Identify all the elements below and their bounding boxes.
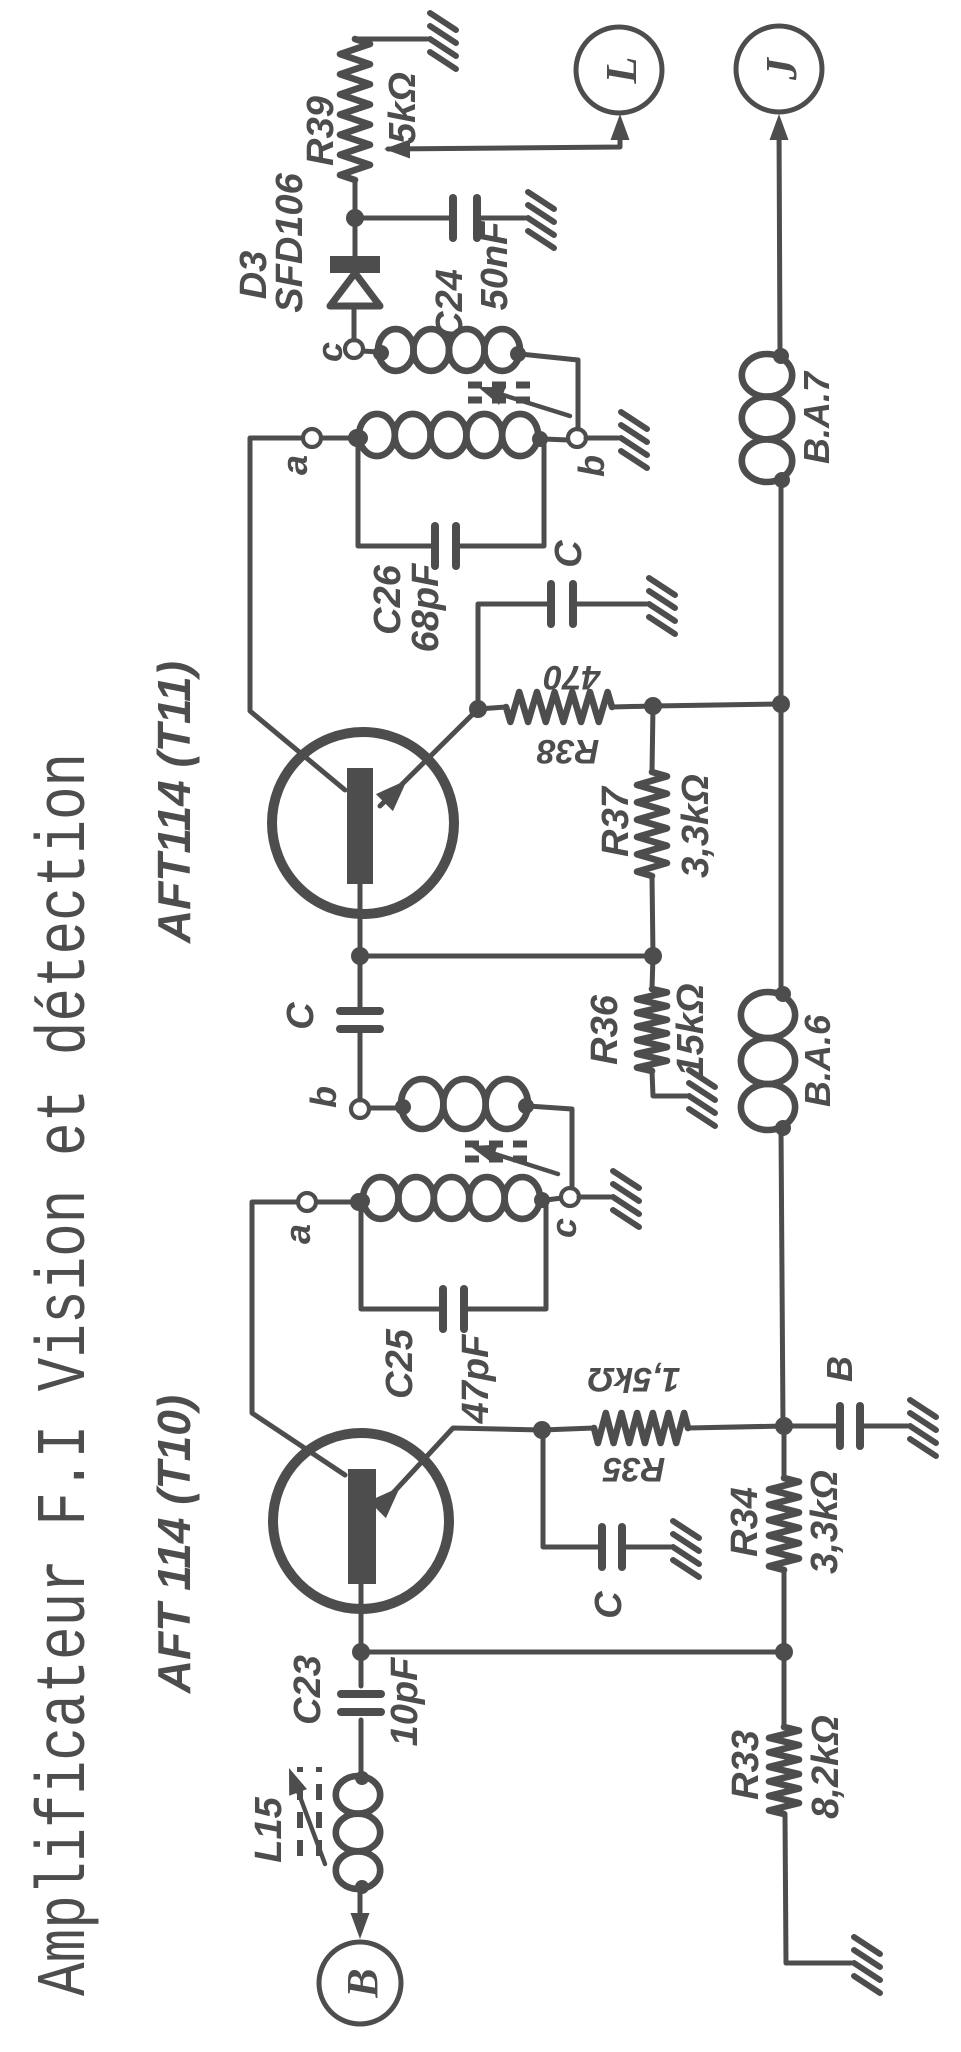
transistor T11 base bar: [347, 768, 373, 884]
label C26: [367, 564, 409, 635]
wire: [359, 1720, 364, 1776]
wire: [359, 1652, 364, 1686]
svg-text:10pF: 10pF: [384, 1656, 426, 1746]
wire T11 emitter lead: [380, 709, 478, 806]
svg-text:3,3kΩ: 3,3kΩ: [675, 774, 717, 878]
label R33: [725, 1730, 767, 1800]
label 3,3k: [804, 1470, 846, 1574]
node: [469, 700, 487, 718]
wire T10 base line: [361, 1650, 784, 1655]
ground: [910, 1400, 936, 1456]
arrow into B: [351, 1913, 370, 1939]
transistor T10 base bar: [348, 1469, 376, 1584]
svg-text:C24: C24: [429, 269, 471, 339]
wire wiper: [388, 122, 620, 149]
label B: [819, 1356, 860, 1382]
wire: [546, 1198, 562, 1200]
label 68pF: [405, 562, 447, 652]
svg-text:c: c: [543, 1218, 584, 1238]
terminal B: [319, 1942, 401, 2024]
svg-text:C: C: [548, 540, 590, 568]
wire T10 collector lead: [252, 1202, 345, 1475]
wire T11 collector lead: [250, 438, 345, 790]
svg-text:68pF: 68pF: [405, 562, 447, 652]
svg-text:50nF: 50nF: [474, 220, 516, 310]
diode D3: [330, 256, 380, 306]
wire C25 branch: [361, 1201, 443, 1309]
svg-text:15kΩ: 15kΩ: [670, 983, 712, 1076]
capacitor B stage1: [840, 1406, 860, 1446]
wire: [782, 1426, 787, 1478]
svg-text:Amplificateur F.I Vision et dé: Amplificateur F.I Vision et détection: [27, 753, 107, 1996]
svg-text:1,5kΩ: 1,5kΩ: [588, 1360, 681, 1398]
wire: [860, 1424, 907, 1429]
wire: [779, 480, 784, 704]
wire secondary to b2: [520, 354, 578, 429]
ground: [621, 412, 647, 468]
transformer1 primary: [354, 1177, 550, 1219]
ground: [430, 13, 456, 69]
node: [350, 1193, 368, 1211]
label b: [303, 1086, 344, 1108]
node a2: [303, 429, 321, 447]
wire: [456, 439, 544, 546]
label 8,2k: [805, 1715, 847, 1819]
potentiometer R39 wiper arrow: [384, 140, 410, 159]
capacitor C24: [453, 198, 477, 238]
svg-text:R34: R34: [724, 1487, 766, 1557]
wire: [784, 1424, 840, 1429]
label C: [548, 540, 590, 568]
svg-text:AFT114 (T11): AFT114 (T11): [148, 661, 200, 944]
capacitor C23: [341, 1694, 381, 1712]
label C23: [287, 1655, 329, 1725]
ground: [649, 578, 675, 634]
wire: [544, 439, 568, 440]
resistor R36: [637, 989, 667, 1071]
wire: [543, 1430, 602, 1547]
wire: [352, 306, 357, 340]
wire: [652, 1071, 686, 1096]
svg-text:J: J: [757, 56, 806, 81]
label 10pF: [384, 1656, 426, 1746]
svg-text:a: a: [274, 455, 315, 475]
label L15: [248, 1796, 290, 1862]
transformer1 secondary: [395, 1079, 534, 1129]
svg-text:B.A.6: B.A.6: [797, 1014, 838, 1107]
label c: [309, 342, 350, 362]
svg-text:8,2kΩ: 8,2kΩ: [805, 1715, 847, 1819]
node: [533, 1421, 551, 1439]
wire: [353, 218, 358, 256]
node: [775, 1643, 793, 1661]
arrow into J: [770, 114, 789, 140]
svg-text:C: C: [280, 1002, 322, 1030]
svg-text:C: C: [588, 1591, 630, 1619]
inductor BA6: [741, 986, 795, 1136]
wire: [353, 180, 358, 218]
wire: [652, 706, 653, 772]
wire: [355, 216, 453, 221]
wire secondary to c1: [528, 1106, 572, 1188]
node T11 base junction: [351, 947, 369, 965]
wire: [478, 604, 551, 709]
transistor T11 circle: [272, 732, 454, 914]
node: [348, 429, 366, 447]
svg-text:b: b: [303, 1086, 344, 1108]
L15 adjust arrow: [289, 1768, 325, 1864]
label B.A.6: [797, 1014, 838, 1107]
wire: [612, 706, 653, 707]
svg-text:b: b: [571, 455, 612, 477]
wire: [316, 1200, 359, 1205]
svg-text:SFD106: SFD106: [269, 172, 311, 312]
wire T10 emitter lead: [380, 1428, 542, 1507]
node c2: [345, 340, 363, 358]
L15 core dashes: [300, 1767, 319, 1856]
transistor Q T10 circle: [273, 1433, 449, 1609]
wire: [652, 956, 653, 989]
ground: [613, 1171, 639, 1227]
wire: [464, 1201, 546, 1309]
node b1: [351, 1100, 369, 1118]
node b2: [568, 429, 586, 447]
svg-text:c: c: [309, 342, 350, 362]
wire: [622, 1545, 670, 1550]
node a1: [298, 1193, 316, 1211]
terminal J: [736, 26, 822, 112]
transformer2 slug: [468, 385, 538, 400]
label C: [588, 1591, 630, 1619]
T10 emitter arrow: [369, 1487, 400, 1518]
node: [772, 695, 790, 713]
wire: [579, 1195, 610, 1200]
transformer1 arrow: [470, 1145, 558, 1174]
label a: [274, 455, 315, 475]
svg-text:R35: R35: [602, 1450, 665, 1488]
wire: [478, 707, 506, 709]
label AFT 114 (T10): [148, 1395, 200, 1694]
T11 emitter arrow: [376, 780, 407, 811]
label C24: [429, 269, 471, 339]
wire: [781, 1128, 783, 1426]
wire: [586, 436, 618, 441]
label B.A.7: [796, 370, 837, 464]
wire: [573, 602, 646, 607]
wire: [358, 956, 363, 1011]
svg-text:a: a: [277, 1224, 318, 1244]
terminal L: [576, 27, 662, 113]
svg-text:B.A.7: B.A.7: [796, 370, 837, 464]
ground: [689, 1070, 715, 1126]
label 47pF: [455, 1333, 497, 1424]
wire rail left: [785, 1814, 786, 1963]
node: [346, 209, 364, 227]
resistor R34: [769, 1478, 799, 1570]
wire: [779, 704, 784, 992]
transformer1 slug: [465, 1144, 535, 1159]
label R35: [602, 1450, 665, 1488]
svg-text:C23: C23: [287, 1655, 329, 1725]
resistor R35: [594, 1413, 688, 1443]
capacitor C stage2: [551, 584, 573, 624]
wire: [652, 876, 653, 956]
label R36: [584, 994, 626, 1065]
svg-text:5kΩ: 5kΩ: [382, 72, 424, 144]
wire: [782, 1570, 787, 1727]
svg-text:C26: C26: [367, 564, 409, 635]
svg-text:47pF: 47pF: [455, 1333, 497, 1424]
svg-text:R33: R33: [725, 1730, 767, 1800]
capacitor C25: [443, 1289, 464, 1329]
svg-text:C25: C25: [379, 1328, 421, 1399]
label 15k: [670, 983, 712, 1076]
inductor BA7: [742, 348, 792, 488]
transformer2 primary: [352, 414, 548, 456]
svg-text:R36: R36: [584, 994, 626, 1065]
label 1,5k: [588, 1360, 681, 1398]
wire T10 base lead: [359, 1584, 364, 1652]
ground: [528, 192, 554, 248]
wire: [358, 1889, 363, 1926]
resistor R39: [340, 39, 370, 180]
wire: [358, 1029, 363, 1100]
label R37: [595, 785, 637, 857]
svg-text:R39: R39: [300, 96, 342, 166]
label b: [571, 455, 612, 477]
svg-text:B: B: [819, 1356, 860, 1382]
transformer2 secondary: [373, 329, 526, 371]
node T10 base junction: [352, 1643, 370, 1661]
svg-text:R37: R37: [595, 785, 637, 857]
capacitor C stage1: [602, 1527, 622, 1567]
node: [644, 697, 662, 715]
label R38: [537, 732, 599, 770]
node: [644, 947, 662, 965]
label 5k: [382, 72, 424, 144]
resistor R37: [637, 772, 667, 876]
label D3: [233, 251, 275, 300]
svg-text:B: B: [338, 1968, 387, 1998]
wire C26 branch: [358, 438, 435, 546]
label R34: [724, 1487, 766, 1557]
svg-text:L15: L15: [248, 1796, 290, 1862]
ground: [854, 1937, 880, 1993]
label C25: [379, 1328, 421, 1399]
capacitor C26: [435, 526, 456, 566]
label SFD106: [269, 172, 311, 312]
label R39: [300, 96, 342, 166]
wire T11 base line: [360, 954, 653, 959]
capacitor C coupling: [340, 1011, 380, 1029]
wire to J: [779, 122, 780, 354]
wire: [320, 436, 357, 441]
resistor R33: [769, 1727, 799, 1814]
label C: [280, 1002, 322, 1030]
svg-text:R38: R38: [537, 732, 599, 770]
svg-text:AFT 114 (T10): AFT 114 (T10): [148, 1395, 200, 1694]
node: [775, 1417, 793, 1435]
label c: [543, 1218, 584, 1238]
wire: [653, 704, 781, 706]
wire: [355, 37, 427, 42]
title Amplificateur F.I Vision et detection: [27, 753, 107, 1996]
transformer2 arrow: [478, 387, 570, 416]
resistor R38: [506, 692, 612, 722]
wire: [362, 351, 379, 352]
node c1: [561, 1188, 579, 1206]
label AFT114 (T11): [148, 661, 200, 944]
wire: [542, 1428, 594, 1430]
svg-text:470: 470: [544, 658, 602, 696]
label a: [277, 1224, 318, 1244]
wire: [368, 1106, 401, 1111]
inductor L15: [336, 1771, 380, 1894]
wire: [477, 216, 525, 221]
wire T11 base lead: [358, 884, 363, 956]
label 50nF: [474, 220, 516, 310]
wire: [688, 1426, 784, 1428]
wire rail end: [786, 1961, 851, 1966]
arrow into L: [611, 114, 630, 140]
svg-text:L: L: [597, 57, 646, 85]
label 470: [544, 658, 602, 696]
ground: [673, 1521, 699, 1577]
label 3,3k: [675, 774, 717, 878]
svg-text:3,3kΩ: 3,3kΩ: [804, 1470, 846, 1574]
